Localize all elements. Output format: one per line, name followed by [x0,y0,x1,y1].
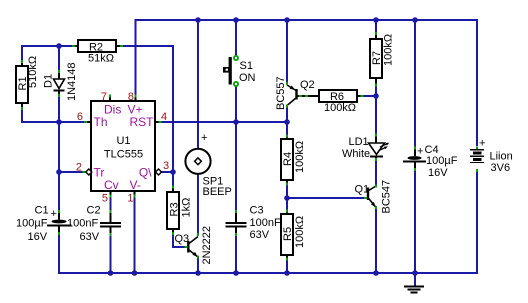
resistor R2 leads [74,45,78,47]
transistor Q2 collector [287,98,296,106]
svg-text:C3: C3 [250,205,264,217]
svg-text:C1: C1 [35,205,49,217]
svg-text:Q1: Q1 [355,184,370,196]
svg-text:4: 4 [161,111,167,123]
junction GND/C3 [233,270,239,276]
capacitor C2 leads [110,212,112,222]
resistor R3 leads [172,188,174,192]
svg-text:BEEP: BEEP [203,186,232,198]
svg-text:Tr: Tr [94,166,105,180]
wire V+ drop to R7 top [375,20,377,33]
U1 pin 2 diamond [83,171,86,173]
junction V+/R7 [373,17,379,23]
wire V+ drop to Q2 emitter [286,20,288,84]
resistor R7 pin ends [375,32,377,35]
ground symbol [404,286,424,288]
svg-text:S1: S1 [240,60,253,72]
svg-text:D1: D1 [43,74,55,88]
resistor R1 leads [21,62,23,66]
resistor R1 body [16,66,28,103]
transistor Q3 base pin end [185,246,188,248]
svg-text:100µF: 100µF [16,218,48,230]
svg-text:U1: U1 [116,135,130,147]
U1 pin 3 diamond [156,169,162,175]
svg-text:51kΩ: 51kΩ [88,53,114,65]
svg-text:1kΩ: 1kΩ [181,198,193,218]
wire Th-Tr vertical down to C1 [58,122,60,212]
svg-text:100kΩ: 100kΩ [324,102,356,114]
capacitor C3 leads [235,212,237,222]
wire R6 right to LED net [363,95,376,97]
svg-text:510kΩ: 510kΩ [27,56,39,88]
capacitor C4 pin ends [414,147,416,150]
battery Liion plates [470,149,484,151]
transistor Q2 base lead [298,95,320,97]
junction V+/Q2 [284,17,290,23]
U1 pin 6 stub [86,121,91,123]
svg-text:16V: 16V [428,167,448,179]
junction Tr net [56,169,62,175]
junction R4/R5/Q1 base [284,195,290,201]
capacitor C2 plates [100,222,121,224]
wire C3 bottom to GND rail [235,235,237,273]
wire R5 top [286,198,288,211]
svg-text:R3: R3 [169,202,181,216]
resistor R4 body [281,139,293,180]
speaker SP1 inner diamond [195,158,202,165]
wire Tr horizontal to U1 pin 2 [59,171,85,173]
switch S1 plunger [223,67,229,73]
transistor Q3 collector [189,237,198,244]
svg-text:3: 3 [163,160,169,172]
svg-text:BC557: BC557 [275,76,287,110]
transistor Q1 collector [369,186,376,191]
resistor R6 body [319,90,357,102]
switch S1 bar [229,57,232,85]
svg-text:Q2: Q2 [300,79,315,91]
junction GND/U1 pin1 [132,270,138,276]
wire C4 bottom to GND rail [414,170,416,273]
capacitor C1 pin ends [58,210,60,213]
resistor R5 pin ends [286,210,288,213]
U1 pin 1 stub [134,191,136,196]
wire V+ drop to S1 top [235,20,237,56]
svg-text:100kΩ: 100kΩ [294,216,306,248]
wire C2 bottom to GND rail [110,235,112,273]
resistor R7 body [370,39,382,78]
switch S1 pin end bottom [234,82,238,86]
resistor R6 right lead [357,95,362,97]
svg-text:100kΩ: 100kΩ [294,141,306,173]
junction V+/SP1 [195,17,201,23]
svg-text:1: 1 [127,193,133,205]
svg-text:2N2222: 2N2222 [201,226,213,265]
U1 pin 8 stub [135,97,137,102]
battery Liion pin ends [476,147,478,150]
svg-text:+: + [201,132,207,144]
diode D1 leads [58,72,60,79]
svg-text:R7: R7 [371,51,383,65]
resistor R7 leads [375,34,377,39]
svg-text:R5: R5 [282,227,294,241]
svg-text:3V6: 3V6 [491,162,511,174]
resistor R2 pin ends [72,45,75,47]
svg-text:White: White [342,148,370,160]
svg-text:ON: ON [239,72,256,84]
svg-text:63V: 63V [250,229,270,241]
U1 pin 4 stub [155,121,160,123]
wire V+ drop to C4 + [414,20,416,148]
svg-text:8: 8 [128,91,134,103]
capacitor C1 plus plate [52,220,67,224]
svg-text:+: + [417,146,423,158]
wire Q3 emitter to GND rail [197,258,199,273]
svg-text:Q3: Q3 [175,233,190,245]
wire D1 anode drop from node A [58,46,60,72]
svg-text:100µF: 100µF [426,155,458,167]
capacitor C3 pin ends [235,210,237,213]
svg-text:100nF: 100nF [67,218,98,230]
wire Q1 emitter to GND rail [375,209,377,273]
junction RST/Q2/R4 [284,119,290,125]
junction GND/C2 [108,270,114,276]
svg-text:6: 6 [77,111,83,123]
transistor Q1 emitter arrow [371,202,376,207]
transistor Q1 emitter [369,199,376,208]
wire V+ top rail with corners to U1 pin 8 and battery + [136,20,478,146]
LED LD1 pin ends [375,134,377,137]
svg-text:+: + [51,208,57,220]
capacitor C3 plates [226,222,247,224]
svg-text:16V: 16V [28,231,48,243]
transistor Q3 emitter arrow [192,252,197,257]
wire R4 top [286,122,288,137]
capacitor C1 leads [58,212,60,220]
junction RST/S1 [233,119,239,125]
resistor R3 body [167,192,179,229]
resistor R4 leads [286,137,288,139]
diode D1 pin ends [58,70,60,73]
transistor Q2 emitter arrow [290,86,295,90]
svg-text:C2: C2 [87,205,101,217]
resistor R2 body [78,40,116,52]
svg-text:Cv: Cv [104,178,119,192]
svg-text:BC547: BC547 [381,180,393,214]
LED LD1 triangle [369,143,385,155]
diode D1 triangle [54,79,65,89]
LED LD1 cathode bar [370,156,383,158]
U1 pin 7 stub [109,97,111,102]
svg-text:TLC555: TLC555 [104,149,143,161]
speaker SP1 circle [185,149,210,174]
capacitor C4 leads [414,148,416,156]
wire D1 cathode to Th net [58,96,60,122]
LED LD1 light arrow 2 [379,147,387,151]
resistor R1 pin ends [21,60,23,63]
svg-text:V-: V- [130,178,141,192]
wire R7 bottom to LED net [375,86,377,96]
LED LD1 leads [375,136,377,143]
resistor R3 pin ends [172,186,174,189]
transistor Q1 base pin end [364,197,367,199]
op-amp U1 TLC555 body [91,101,155,191]
junction V+/C4 [412,17,418,23]
svg-text:100kΩ: 100kΩ [383,34,395,66]
junction V+/S1 [233,17,239,23]
junction Th net [56,119,62,125]
svg-text:Liion: Liion [490,151,513,163]
wire GND bottom rail with corners from C1 to battery - [59,171,477,273]
wire R4 bottom to base node [286,184,288,198]
resistor R4 pin ends [286,135,288,138]
svg-text:5: 5 [102,193,108,205]
wire node A horizontal R1 top to R2 left [22,46,72,63]
wire U1 pin 1 V- down to GND rail [134,197,136,273]
resistor R5 body [281,214,293,255]
U1 pin 5 stub [110,191,112,196]
svg-text:R4: R4 [282,152,294,166]
svg-text:63V: 63V [80,231,100,243]
wire Q1 base horizontal [287,197,364,199]
junction node A D1 anode [56,43,62,49]
wire ground stem [414,273,416,286]
capacitor C1 minus plate [47,225,72,227]
transistor Q2 emitter [287,85,296,91]
wire LD1 cathode to Q1 collector [375,160,377,186]
wire S1 bottom to RST net and down to C3 [235,86,237,211]
junction R6/R7/LD1 [373,93,379,99]
wire C2 top from U1 pin 5 [110,197,112,212]
transistor Q3 base bar [187,241,189,253]
wire Q2 collector to RST node [286,107,288,122]
capacitor C2 pin ends [110,210,112,213]
diode D1 cathode bar [54,90,65,92]
wire RST horizontal U1 pin 4 to Q2 collector node [161,121,287,123]
svg-text:7: 7 [101,91,107,103]
svg-text:2: 2 [76,162,82,174]
resistor R5 leads [286,212,288,214]
wire V+ drop to SP1 top [197,20,199,150]
svg-text:LD1: LD1 [349,136,369,148]
junction Q out net [170,169,176,175]
capacitor C4 plus plate [408,156,422,160]
wire U1 pin 3 to R3 top [161,171,173,173]
junction GND/R5 [284,270,290,276]
svg-text:100nF: 100nF [250,217,281,229]
LED LD1 light arrow 1 [380,143,388,147]
transistor Q2 base bar [295,89,297,100]
capacitor C4 minus plate [403,161,426,163]
svg-text:+: + [479,138,485,150]
transistor Q1 base bar [367,188,369,201]
switch S1 pin end top [234,56,238,60]
wire Th horizontal R1 bottom to U1 pin 6 [22,108,85,122]
junction GND/C4/earth [412,270,418,276]
wire R2 right to U1 pin 3 net [122,46,173,187]
junction GND/Q1 [373,270,379,276]
wire R5 bottom to GND rail [286,260,288,273]
wire SP1 bottom to Q3 collector [197,174,199,234]
transistor Q3 emitter [189,250,198,257]
svg-text:1N4148: 1N4148 [66,62,78,101]
junction GND/Q3 [195,270,201,276]
svg-text:Th: Th [94,115,108,129]
wire LED net down to LD1 anode [375,96,377,135]
svg-text:RST: RST [130,115,155,129]
wire R3 bottom L-bend to Q3 base [173,234,186,247]
